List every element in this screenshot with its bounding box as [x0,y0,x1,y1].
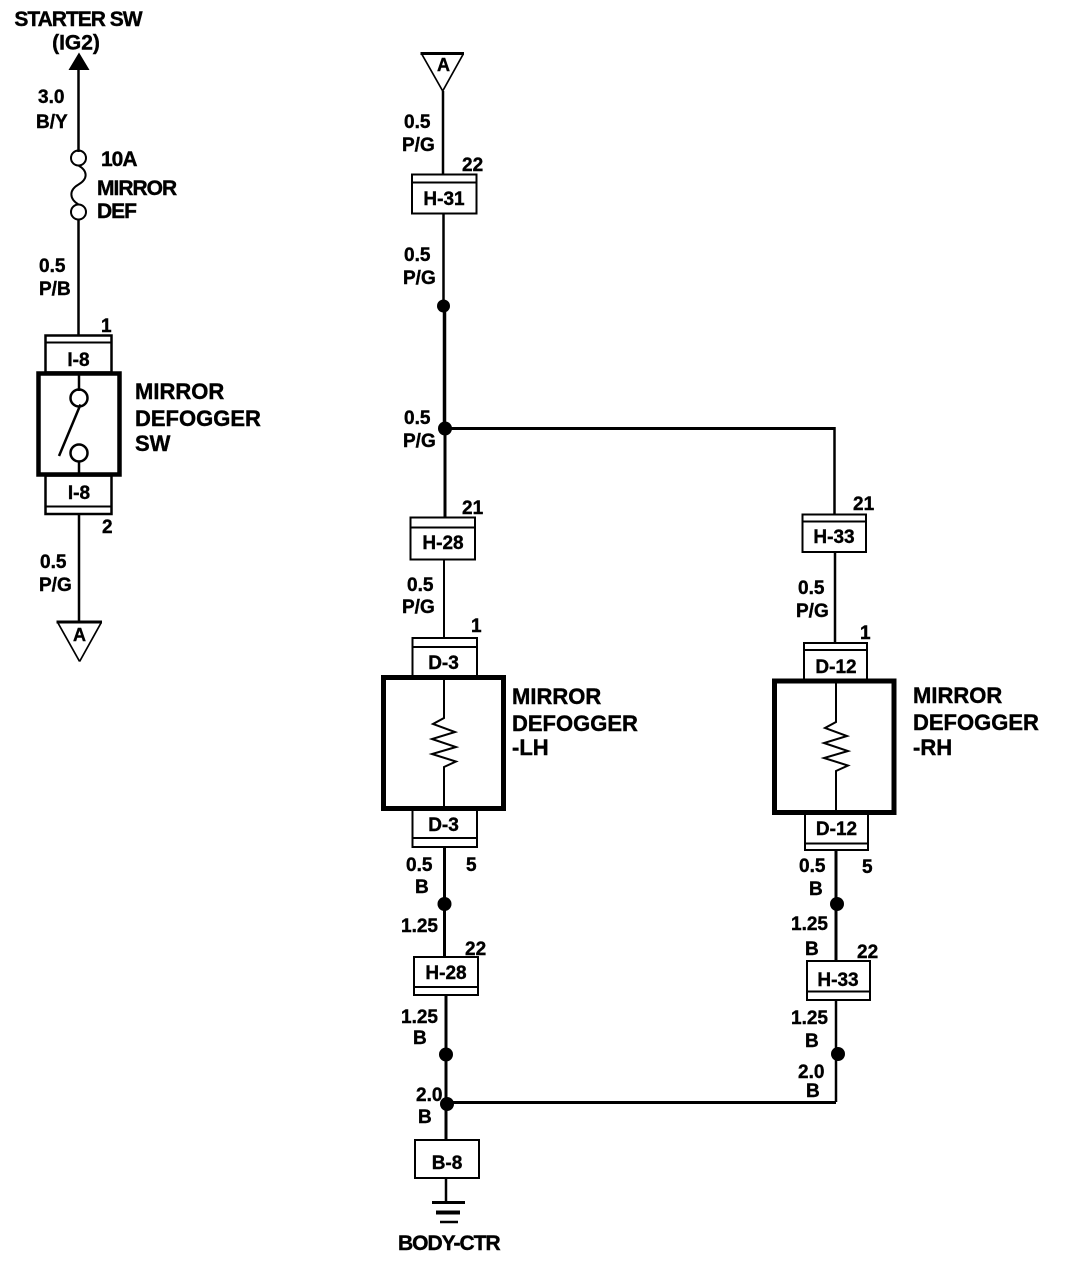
svg-text:3.0: 3.0 [38,87,64,108]
svg-text:MIRROR: MIRROR [97,177,177,200]
svg-text:B: B [415,877,429,898]
svg-text:I-8: I-8 [68,483,90,504]
svg-text:1: 1 [101,316,112,337]
svg-text:2.0: 2.0 [416,1085,442,1106]
svg-text:5: 5 [466,855,477,876]
svg-text:B: B [418,1107,432,1128]
svg-text:BODY-CTR: BODY-CTR [398,1232,501,1255]
svg-text:0.5: 0.5 [39,256,66,277]
svg-text:1.25: 1.25 [401,1007,438,1028]
svg-text:P/G: P/G [796,601,829,622]
svg-text:0.5: 0.5 [407,575,434,596]
svg-text:P/B: P/B [39,279,71,300]
svg-text:STARTER SW: STARTER SW [14,8,142,31]
svg-text:H-28: H-28 [425,963,466,984]
svg-text:H-33: H-33 [817,970,858,991]
svg-text:DEFOGGER: DEFOGGER [512,711,638,736]
svg-text:1: 1 [860,623,871,644]
svg-text:2.0: 2.0 [798,1062,824,1083]
svg-text:DEFOGGER: DEFOGGER [135,406,261,431]
svg-text:B/Y: B/Y [36,112,68,133]
svg-text:5: 5 [862,857,873,878]
svg-text:P/G: P/G [402,597,435,618]
svg-text:0.5: 0.5 [799,856,826,877]
svg-text:22: 22 [857,942,878,963]
svg-text:B: B [413,1028,427,1049]
svg-text:DEF: DEF [97,200,137,223]
svg-text:A: A [437,55,450,75]
svg-text:P/G: P/G [403,431,436,452]
svg-text:0.5: 0.5 [404,112,431,133]
svg-text:0.5: 0.5 [404,245,431,266]
svg-text:D-12: D-12 [815,657,856,678]
svg-text:SW: SW [135,431,171,456]
svg-text:MIRROR: MIRROR [913,683,1002,708]
svg-text:MIRROR: MIRROR [512,684,601,709]
svg-text:B: B [806,1081,820,1102]
svg-text:DEFOGGER: DEFOGGER [913,710,1039,735]
svg-text:D-3: D-3 [428,815,459,836]
svg-text:0.5: 0.5 [40,552,67,573]
svg-text:10A: 10A [101,148,137,171]
svg-text:1.25: 1.25 [791,914,828,935]
svg-text:0.5: 0.5 [404,408,431,429]
svg-text:I-8: I-8 [67,350,89,371]
svg-text:D-12: D-12 [816,819,857,840]
svg-text:2: 2 [102,517,113,538]
svg-text:P/G: P/G [402,135,435,156]
svg-text:H-33: H-33 [813,527,854,548]
svg-text:H-28: H-28 [422,533,463,554]
svg-text:1.25: 1.25 [401,916,438,937]
svg-text:22: 22 [465,939,486,960]
svg-text:(IG2): (IG2) [52,32,100,55]
svg-text:-RH: -RH [913,735,952,760]
svg-text:0.5: 0.5 [798,578,825,599]
svg-text:B: B [805,939,819,960]
svg-text:B: B [805,1031,819,1052]
svg-text:-LH: -LH [512,735,549,760]
svg-text:0.5: 0.5 [406,855,433,876]
svg-text:P/G: P/G [403,268,436,289]
svg-text:A: A [73,625,86,645]
svg-text:MIRROR: MIRROR [135,379,224,404]
svg-text:22: 22 [462,155,483,176]
svg-text:1: 1 [471,616,482,637]
svg-text:D-3: D-3 [428,653,459,674]
svg-text:B-8: B-8 [432,1153,463,1174]
svg-text:B: B [809,879,823,900]
svg-text:H-31: H-31 [423,189,465,210]
svg-text:1.25: 1.25 [791,1008,828,1029]
svg-text:P/G: P/G [39,575,72,596]
svg-text:21: 21 [462,498,484,519]
svg-text:21: 21 [853,494,875,515]
